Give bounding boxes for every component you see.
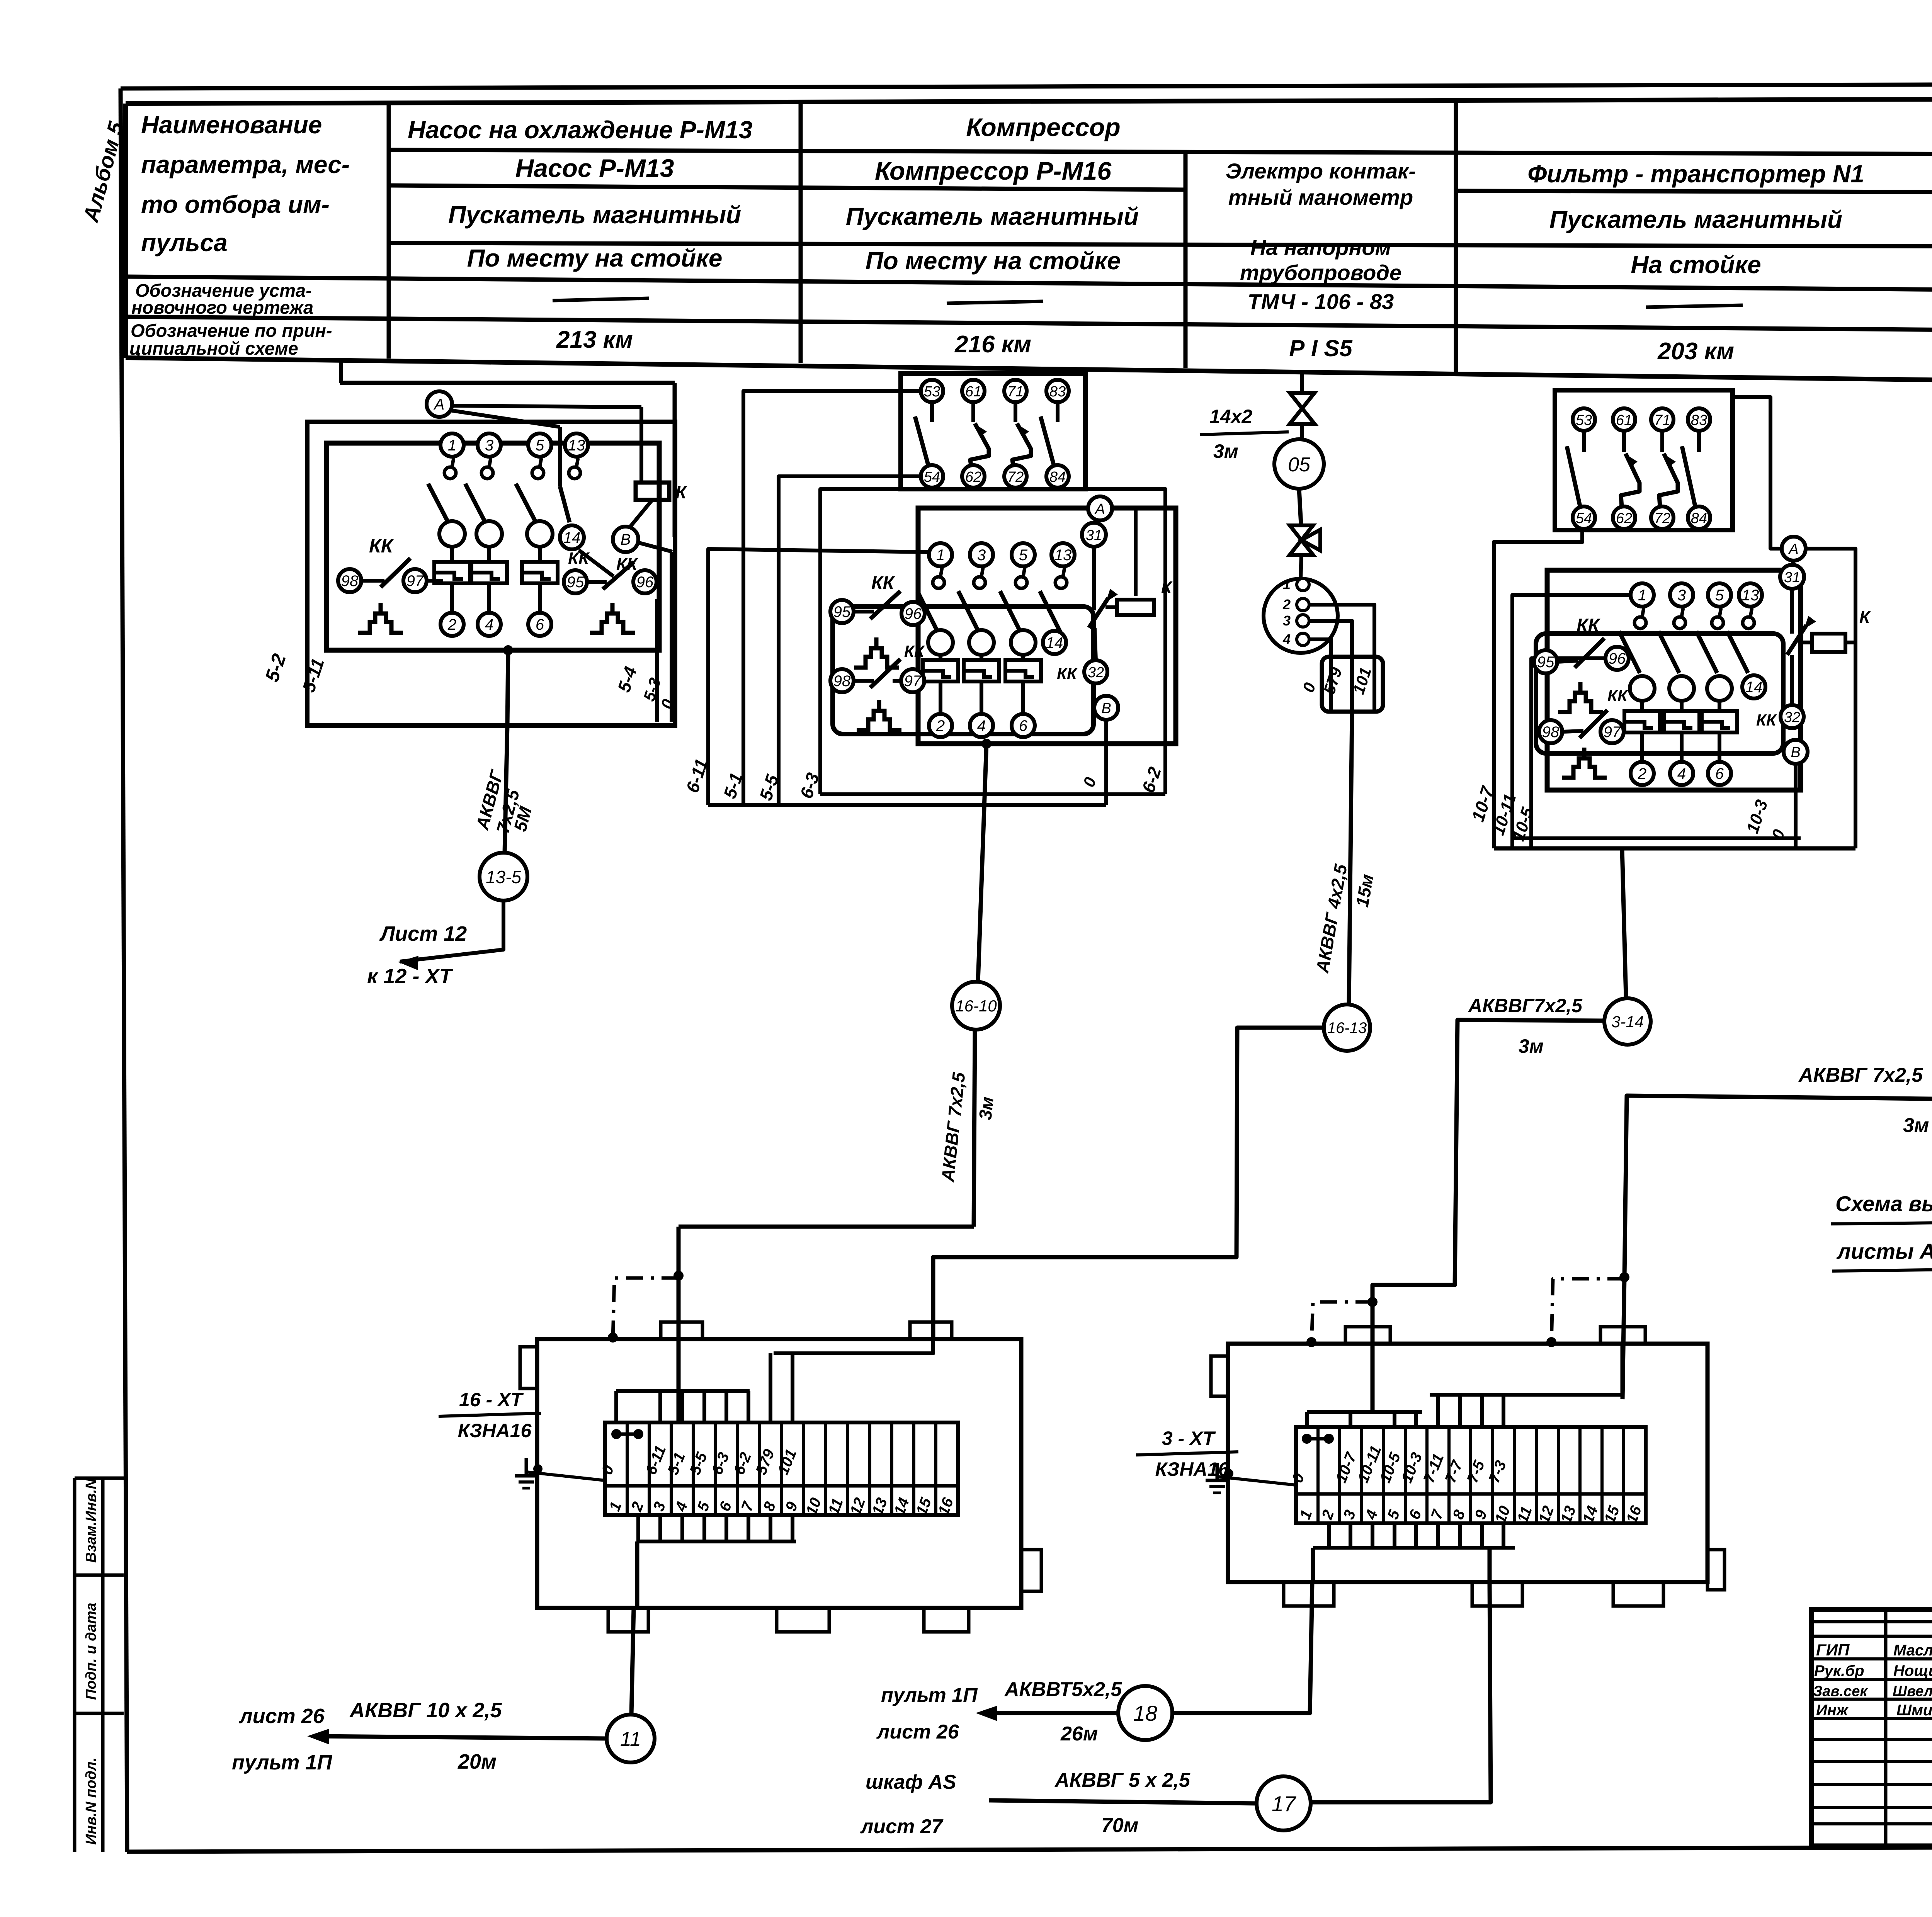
svg-text:72: 72	[1654, 510, 1670, 527]
svg-text:96: 96	[1609, 650, 1626, 667]
long wire АКВВГ 7х2,5 3м	[1622, 1039, 1932, 1399]
svg-text:53: 53	[924, 384, 940, 400]
wire stub from terminal 9	[791, 1515, 794, 1541]
wire stub to terminal 7	[1436, 1395, 1440, 1427]
wire stub to terminal 1	[614, 1391, 618, 1422]
pole 5-6	[1012, 543, 1035, 566]
svg-text:84: 84	[1691, 510, 1707, 527]
wire stub from terminal 8	[769, 1515, 772, 1541]
svg-text:ТМЧ - 106 - 83: ТМЧ - 106 - 83	[1248, 289, 1394, 314]
svg-text:К: К	[1161, 578, 1173, 597]
valve 2	[1290, 525, 1313, 540]
svg-text:4: 4	[1677, 765, 1686, 782]
reset symbol left block1	[358, 614, 403, 633]
pole 1-2	[1631, 583, 1654, 607]
drawing frame	[121, 83, 1932, 88]
starter block 4 (Фильтр N1) aux box	[1555, 390, 1733, 530]
svg-text:По месту на стойке: По месту на стойке	[866, 247, 1121, 275]
svg-text:шкаф АS: шкаф АS	[866, 1771, 956, 1793]
svg-text:70м: 70м	[1101, 1814, 1138, 1837]
svg-text:пульт 1П: пульт 1П	[881, 1684, 978, 1706]
junction circle 13-5	[480, 853, 527, 901]
wire stub from terminal 7	[1436, 1523, 1440, 1548]
svg-text:А: А	[434, 396, 445, 413]
svg-text:71: 71	[1654, 412, 1670, 428]
svg-text:31: 31	[1784, 569, 1800, 586]
svg-text:к 12 - ХТ: к 12 - ХТ	[367, 965, 453, 988]
svg-text:13: 13	[1054, 547, 1072, 564]
svg-text:Рук.бр: Рук.бр	[1814, 1662, 1864, 1679]
svg-text:то отбора им-: то отбора им-	[141, 190, 330, 218]
svg-text:61: 61	[1616, 412, 1632, 428]
pin 1	[1297, 578, 1309, 591]
svg-text:Насос Р-М13: Насос Р-М13	[515, 154, 674, 182]
reset symbol right block1	[590, 614, 635, 633]
svg-text:Масленников: Масленников	[1893, 1642, 1932, 1659]
svg-text:Электро контак-: Электро контак-	[1226, 159, 1416, 183]
svg-text:На напорном: На напорном	[1250, 235, 1391, 260]
svg-text:61: 61	[965, 384, 981, 400]
svg-text:13-5: 13-5	[486, 867, 521, 887]
svg-text:Компрессор Р-М16: Компрессор Р-М16	[875, 156, 1112, 185]
svg-text:54: 54	[1576, 510, 1592, 527]
svg-text:83: 83	[1691, 412, 1707, 428]
svg-text:6: 6	[536, 616, 544, 633]
svg-text:95: 95	[833, 603, 851, 620]
svg-text:72: 72	[1007, 469, 1024, 485]
svg-text:На стойке: На стойке	[1631, 251, 1761, 279]
svg-text:2: 2	[1638, 765, 1646, 782]
node 32, B block2	[1084, 660, 1107, 683]
svg-text:17: 17	[1272, 1791, 1296, 1816]
svg-text:1: 1	[448, 437, 456, 454]
svg-text:Инв.N подл.: Инв.N подл.	[83, 1757, 99, 1845]
pole 1-2	[929, 543, 952, 566]
svg-text:Нощин: Нощин	[1893, 1662, 1932, 1679]
svg-text:трубопроводе: трубопроводе	[1240, 260, 1401, 285]
svg-text:пульса: пульса	[141, 229, 228, 257]
wire stub from terminal 3	[1349, 1523, 1352, 1548]
terminal box enclosure	[1228, 1344, 1708, 1582]
svg-text:62: 62	[965, 469, 981, 485]
wire stub to terminal 8	[1458, 1395, 1462, 1427]
wire stub to terminal 1	[1305, 1412, 1309, 1427]
svg-text:6: 6	[1715, 765, 1724, 782]
svg-text:Лист 12: Лист 12	[379, 922, 467, 945]
block4 top right shelf	[1733, 397, 1855, 848]
svg-text:В: В	[1101, 700, 1111, 717]
wire stub to terminal 3	[658, 1391, 662, 1422]
svg-text:71: 71	[1007, 384, 1024, 400]
pressure gauge line	[1300, 370, 1304, 391]
wire to sheet 12	[400, 901, 503, 962]
svg-text:5: 5	[1019, 547, 1028, 564]
svg-text:Схема выполнена на основани: Схема выполнена на основании схем управл…	[1835, 1191, 1932, 1216]
wire stub to terminal 9	[791, 1353, 794, 1422]
ground	[1217, 1477, 1296, 1485]
svg-text:16-10: 16-10	[955, 997, 997, 1015]
device box block4	[1547, 570, 1801, 790]
svg-text:97: 97	[904, 673, 922, 690]
wires block1 bottom	[503, 645, 513, 655]
block2 outer loop	[820, 489, 1165, 794]
pole 13-14 block1	[565, 433, 588, 457]
svg-text:КК: КК	[1607, 687, 1629, 705]
wire stub from terminal 5	[702, 1515, 706, 1541]
wire stub to terminal 8	[769, 1353, 772, 1422]
svg-text:20м: 20м	[457, 1750, 497, 1773]
wire stub from terminal 3	[658, 1515, 662, 1541]
node 32, B block4	[1781, 705, 1804, 728]
wire stub from terminal 9	[1480, 1523, 1484, 1548]
svg-text:32: 32	[1088, 664, 1104, 681]
svg-text:КЗНА16: КЗНА16	[458, 1420, 532, 1441]
svg-text:3м: 3м	[1903, 1114, 1929, 1137]
svg-text:53: 53	[1576, 412, 1592, 428]
svg-text:2: 2	[936, 717, 945, 734]
svg-text:пульт 1П: пульт 1П	[232, 1751, 332, 1774]
svg-text:2: 2	[1282, 597, 1291, 612]
svg-text:62: 62	[1616, 510, 1632, 527]
wire stub from terminal 4	[680, 1515, 684, 1541]
svg-text:КК: КК	[1577, 615, 1601, 636]
dash-dot screen wire	[673, 1271, 684, 1281]
pin 2	[1297, 598, 1309, 611]
svg-text:По месту на стойке: По месту на стойке	[467, 244, 723, 272]
svg-text:параметра, мес-: параметра, мес-	[141, 151, 350, 178]
svg-text:А: А	[1094, 501, 1105, 517]
pin 3	[1297, 615, 1309, 627]
wire stub from terminal 8	[1458, 1523, 1462, 1548]
svg-text:3: 3	[1677, 587, 1686, 604]
svg-text:2: 2	[447, 616, 456, 633]
svg-text:АКВВГ 5 х 2,5: АКВВГ 5 х 2,5	[1054, 1769, 1190, 1791]
svg-text:18: 18	[1133, 1701, 1157, 1725]
aux contact 61-62	[962, 380, 985, 402]
junction circle 17	[1257, 1776, 1311, 1830]
starter block 2 (Компрессор Р-М16) aux contact box	[901, 374, 1085, 489]
svg-text:А: А	[1788, 541, 1798, 557]
svg-text:1: 1	[1283, 576, 1291, 592]
svg-text:98: 98	[833, 673, 851, 690]
svg-text:КК: КК	[616, 555, 638, 574]
svg-text:3: 3	[485, 437, 493, 454]
svg-text:95: 95	[1537, 654, 1554, 671]
svg-text:4: 4	[977, 717, 986, 734]
svg-text:Зав.сек: Зав.сек	[1813, 1683, 1868, 1699]
jumper link	[1302, 1434, 1312, 1444]
jumper link	[611, 1429, 621, 1439]
wire stub to terminal 5	[1393, 1412, 1396, 1427]
cable АКВВГ 7х2,5 5М	[505, 726, 507, 853]
svg-text:лист 26: лист 26	[876, 1721, 959, 1743]
aux contact 71-72	[1651, 408, 1673, 431]
svg-text:Швельская: Швельская	[1893, 1683, 1932, 1699]
cable to 3-14	[1622, 848, 1626, 998]
svg-text:54: 54	[924, 469, 940, 485]
svg-text:К: К	[675, 482, 687, 502]
svg-text:Компрессор: Компрессор	[966, 113, 1120, 141]
pole 3-4	[970, 543, 993, 566]
svg-text:ГИП: ГИП	[1816, 1641, 1850, 1659]
svg-text:Р I S5: Р I S5	[1289, 335, 1353, 361]
aux contact 53-54	[921, 380, 943, 402]
svg-text:203 км: 203 км	[1657, 338, 1734, 365]
svg-text:97: 97	[1604, 724, 1621, 741]
svg-text:Пускатель магнитный: Пускатель магнитный	[1549, 206, 1842, 233]
coil K block2	[1092, 547, 1096, 610]
svg-text:КК: КК	[871, 573, 896, 593]
cable to 16-10	[981, 739, 992, 749]
svg-text:98: 98	[341, 573, 359, 590]
svg-text:16 - ХТ: 16 - ХТ	[459, 1389, 524, 1411]
svg-text:ципиальной схеме: ципиальной схеме	[129, 338, 298, 359]
svg-text:лист 26: лист 26	[238, 1705, 325, 1728]
bottom of block4	[1512, 836, 1801, 840]
svg-text:26м: 26м	[1060, 1723, 1098, 1745]
pole 3-4	[1670, 583, 1693, 607]
svg-text:АКВВГ7х2,5: АКВВГ7х2,5	[1468, 995, 1583, 1016]
wire stub to terminal 6	[724, 1391, 728, 1422]
svg-text:К: К	[1859, 608, 1871, 627]
wire stub from terminal 6	[1414, 1523, 1418, 1548]
wiring into 16-ХТ	[616, 1389, 750, 1393]
wire stub from terminal 6	[724, 1515, 728, 1541]
header table grid	[126, 98, 1932, 104]
node B block1	[613, 527, 638, 552]
svg-text:АКВВГ 10 х 2,5: АКВВГ 10 х 2,5	[349, 1699, 502, 1722]
svg-text:лист 27: лист 27	[860, 1815, 944, 1838]
coil K block4	[1787, 625, 1806, 655]
svg-text:83: 83	[1049, 384, 1066, 400]
terminal strip	[605, 1422, 958, 1515]
cable АКВВГ 4х2,5 15м	[1349, 712, 1352, 1004]
svg-text:11: 11	[620, 1728, 641, 1750]
node A block4	[1782, 537, 1806, 561]
svg-text:КК: КК	[904, 642, 925, 660]
block2 left loop wires	[708, 549, 929, 805]
svg-text:Пускатель магнитный: Пускатель магнитный	[846, 202, 1139, 230]
svg-text:84: 84	[1049, 469, 1066, 485]
wire to circle 17	[1311, 1582, 1491, 1802]
pin 4	[1297, 633, 1309, 646]
svg-text:3 - ХТ: 3 - ХТ	[1162, 1428, 1216, 1449]
wire stub from terminal 2	[636, 1515, 640, 1541]
device box block2	[918, 508, 1176, 744]
wire stub to terminal 9	[1480, 1395, 1484, 1427]
svg-text:Подп. и дата: Подп. и дата	[83, 1603, 99, 1700]
svg-text:Фильтр - транспортер N1: Фильтр - транспортер N1	[1527, 160, 1864, 188]
svg-text:1: 1	[1638, 587, 1646, 604]
svg-text:4: 4	[1282, 631, 1291, 647]
svg-text:5: 5	[1715, 587, 1724, 604]
pole 1-2	[440, 433, 464, 457]
junction circle 11	[607, 1715, 655, 1762]
svg-text:216 км: 216 км	[954, 331, 1031, 358]
svg-text:4: 4	[485, 616, 493, 633]
connector plug circle	[1264, 579, 1338, 653]
ground	[526, 1472, 605, 1480]
wire stub to terminal 5	[702, 1391, 706, 1422]
wire stub to terminal 3	[1349, 1412, 1352, 1427]
svg-text:В: В	[621, 531, 631, 548]
svg-text:Насос на охлаждение Р-М13: Насос на охлаждение Р-М13	[408, 116, 752, 144]
node A block2	[1088, 496, 1112, 520]
pole 3-4	[478, 433, 501, 457]
node A (block1)	[452, 406, 641, 407]
svg-text:16-13: 16-13	[1327, 1020, 1367, 1037]
plug wires	[1309, 605, 1374, 710]
svg-text:АКВВГ 7х2,5: АКВВГ 7х2,5	[1798, 1064, 1923, 1086]
svg-text:05: 05	[1288, 454, 1311, 476]
svg-text:листы АВК- 7, 8, 15.: листы АВК- 7, 8, 15.	[1836, 1239, 1932, 1263]
svg-text:3-14: 3-14	[1611, 1013, 1644, 1031]
wire stub from terminal 4	[1371, 1523, 1374, 1548]
aux contact 53-54	[1573, 408, 1595, 431]
wire stub from terminal 2	[1327, 1523, 1331, 1548]
svg-text:1: 1	[936, 547, 945, 564]
aux contact 61-62	[1613, 408, 1635, 431]
svg-text:АКВВТ5х2,5: АКВВТ5х2,5	[1004, 1678, 1122, 1701]
svg-text:тный манометр: тный манометр	[1228, 185, 1413, 209]
svg-text:14: 14	[1745, 679, 1763, 696]
svg-text:Наименование: Наименование	[141, 111, 322, 139]
aux contact 71-72	[1004, 380, 1027, 402]
title block	[1811, 1609, 1932, 1846]
aux contact 83-84	[1688, 408, 1710, 431]
svg-text:3: 3	[1283, 613, 1291, 629]
wiring into 3-ХТ	[1307, 1410, 1422, 1414]
svg-text:97: 97	[406, 573, 424, 590]
block4 left loop wires	[1494, 530, 1582, 848]
svg-text:3м: 3м	[1213, 440, 1238, 462]
svg-text:14х2: 14х2	[1209, 406, 1252, 427]
wire stub to terminal 10	[1502, 1395, 1505, 1427]
svg-text:213 км: 213 км	[556, 326, 633, 353]
svg-text:31: 31	[1086, 527, 1102, 544]
svg-text:КК: КК	[369, 535, 394, 557]
svg-text:3: 3	[977, 547, 986, 564]
cable АКВВГ 10х2,5 to пульт 1П	[313, 1736, 607, 1739]
junction circle 18	[1118, 1686, 1172, 1740]
wire stub from terminal 5	[1393, 1523, 1396, 1548]
svg-text:13: 13	[568, 437, 585, 454]
wire stub from terminal 7	[747, 1515, 750, 1541]
svg-text:Шмидт: Шмидт	[1896, 1702, 1932, 1719]
svg-text:В: В	[1791, 744, 1800, 761]
aux contact 83-84	[1046, 380, 1069, 402]
coil K block1	[636, 483, 669, 500]
svg-text:новочного чертежа: новочного чертежа	[131, 297, 313, 318]
dash-dot screen wires	[1367, 1297, 1378, 1307]
svg-text:13: 13	[1742, 587, 1759, 604]
pole 5-6	[528, 433, 551, 457]
wire stub to terminal 7	[747, 1391, 750, 1422]
node 31 block4	[1780, 565, 1804, 589]
terminal strip	[1296, 1427, 1646, 1523]
svg-text:14: 14	[1046, 634, 1063, 651]
starter block 1 (Насос Р-М13) enclosure	[339, 359, 343, 383]
svg-text:3м: 3м	[975, 1096, 997, 1121]
svg-text:Пускатель магнитный: Пускатель магнитный	[448, 201, 741, 229]
svg-text:КК: КК	[1057, 664, 1078, 683]
svg-text:14: 14	[563, 529, 581, 546]
margin stamp column	[73, 1478, 77, 1852]
pole 5-6	[1708, 583, 1731, 607]
svg-text:96: 96	[636, 574, 654, 591]
node 31 block2	[1082, 523, 1106, 547]
svg-text:96: 96	[905, 605, 922, 622]
terminal box enclosure	[537, 1339, 1021, 1608]
wire to circle 18	[1172, 1582, 1312, 1713]
svg-text:КЗНА16: КЗНА16	[1155, 1458, 1230, 1480]
svg-text:3м: 3м	[1519, 1035, 1544, 1057]
svg-text:6: 6	[1019, 717, 1028, 734]
wire stub to terminal 4	[680, 1391, 684, 1422]
svg-text:Взам.Инв.N: Взам.Инв.N	[83, 1478, 99, 1563]
svg-text:Инж: Инж	[1816, 1702, 1849, 1719]
svg-text:32: 32	[1784, 709, 1800, 726]
wire stub to terminal 6	[1414, 1412, 1418, 1427]
wire stub from terminal 10	[1502, 1523, 1505, 1548]
pole 13-14 block2	[1051, 543, 1075, 566]
pole 13-14 block4	[1739, 583, 1762, 607]
svg-text:95: 95	[567, 574, 584, 591]
gauge circle 05	[1274, 439, 1324, 489]
svg-text:98: 98	[1542, 724, 1560, 741]
svg-text:КК: КК	[1756, 711, 1777, 729]
svg-text:5: 5	[536, 437, 544, 454]
valve 1	[1290, 393, 1315, 408]
